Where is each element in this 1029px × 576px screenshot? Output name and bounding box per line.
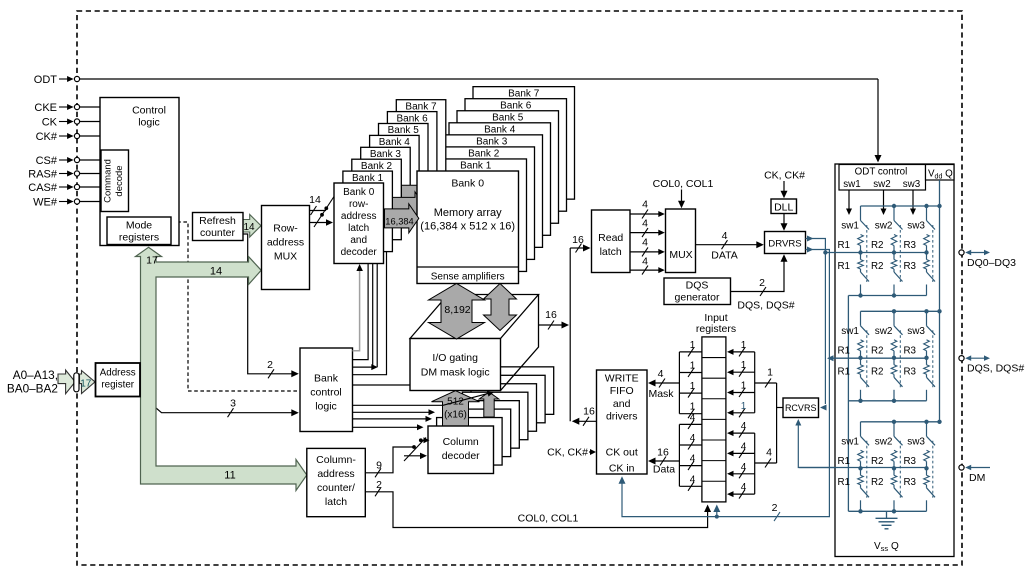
svg-text:counter: counter [200, 227, 236, 239]
svg-text:sw3: sw3 [907, 436, 925, 447]
svg-text:drivers: drivers [606, 411, 638, 423]
svg-text:ODT: ODT [34, 74, 58, 86]
svg-text:R1: R1 [837, 366, 850, 377]
svg-text:ODT control: ODT control [855, 167, 908, 178]
svg-text:R2: R2 [871, 477, 884, 488]
svg-text:4: 4 [741, 462, 747, 473]
svg-text:4: 4 [741, 482, 747, 493]
svg-text:Bank 6: Bank 6 [397, 113, 429, 124]
svg-text:sw1: sw1 [841, 436, 859, 447]
svg-text:CK, CK#: CK, CK# [547, 447, 588, 459]
svg-text:MUX: MUX [274, 251, 297, 263]
svg-text:DM mask logic: DM mask logic [421, 367, 490, 379]
svg-text:and: and [613, 398, 631, 410]
svg-text:R3: R3 [903, 366, 916, 377]
svg-text:address: address [317, 468, 354, 480]
svg-text:3: 3 [230, 398, 236, 410]
svg-text:registers: registers [696, 323, 736, 335]
svg-text:latch: latch [600, 246, 622, 258]
svg-text:DQS: DQS [686, 280, 709, 292]
svg-text:decoder: decoder [341, 247, 378, 258]
svg-text:2: 2 [759, 277, 765, 289]
svg-text:and: and [350, 235, 367, 246]
svg-text:COL0, COL1: COL0, COL1 [518, 513, 579, 525]
svg-text:Column: Column [443, 436, 479, 448]
svg-text:R3: R3 [903, 477, 916, 488]
svg-text:DRVRS: DRVRS [768, 239, 801, 250]
svg-text:sw1: sw1 [843, 179, 860, 190]
svg-text:16,384: 16,384 [385, 217, 413, 227]
svg-text:1: 1 [741, 340, 747, 351]
svg-text:16: 16 [572, 234, 584, 246]
svg-text:16: 16 [583, 406, 595, 418]
svg-text:4: 4 [722, 230, 728, 242]
svg-text:16: 16 [545, 309, 557, 321]
svg-text:R2: R2 [871, 456, 884, 467]
svg-text:DQS, DQS#: DQS, DQS# [737, 300, 794, 312]
svg-text:Bank: Bank [314, 373, 339, 385]
svg-text:latch: latch [348, 223, 369, 234]
svg-text:4: 4 [642, 255, 648, 267]
svg-text:address: address [267, 237, 304, 249]
svg-text:Read: Read [598, 232, 623, 244]
svg-text:Bank 0: Bank 0 [451, 178, 484, 190]
svg-text:17: 17 [146, 255, 158, 267]
svg-text:sw2: sw2 [875, 221, 893, 232]
svg-text:1: 1 [690, 361, 696, 372]
svg-text:1: 1 [690, 340, 696, 351]
svg-text:sw1: sw1 [841, 326, 859, 337]
svg-text:Bank 2: Bank 2 [361, 161, 393, 172]
svg-text:Mask: Mask [648, 388, 674, 400]
svg-text:logic: logic [315, 401, 337, 413]
svg-text:row-: row- [349, 199, 368, 210]
svg-text:Bank 1: Bank 1 [460, 161, 492, 172]
svg-text:DLL: DLL [774, 201, 793, 213]
svg-text:14: 14 [210, 266, 222, 278]
svg-text:1: 1 [741, 360, 747, 371]
svg-text:Bank 6: Bank 6 [500, 100, 532, 111]
svg-text:register: register [101, 380, 134, 391]
svg-text:4: 4 [766, 447, 772, 459]
svg-text:4: 4 [741, 421, 747, 432]
svg-text:Row-: Row- [273, 223, 298, 235]
svg-text:R1: R1 [837, 240, 850, 251]
svg-text:latch: latch [325, 496, 347, 508]
svg-text:RAS#: RAS# [28, 169, 58, 181]
svg-text:Bank 2: Bank 2 [468, 149, 500, 160]
svg-text:Bank 5: Bank 5 [492, 112, 524, 123]
svg-text:2: 2 [267, 359, 273, 371]
svg-text:CK: CK [42, 117, 58, 129]
svg-text:14: 14 [243, 222, 255, 233]
svg-text:sw2: sw2 [873, 179, 890, 190]
svg-text:MUX: MUX [669, 249, 692, 261]
svg-text:Bank 4: Bank 4 [484, 125, 516, 136]
svg-text:R2: R2 [871, 240, 884, 251]
svg-text:4: 4 [642, 217, 648, 229]
svg-text:11: 11 [224, 470, 235, 482]
svg-text:4: 4 [642, 236, 648, 248]
svg-text:Command: Command [103, 159, 114, 203]
svg-text:CK, CK#: CK, CK# [764, 170, 805, 182]
svg-text:Address: Address [100, 368, 136, 379]
svg-text:R2: R2 [871, 366, 884, 377]
svg-text:R1: R1 [837, 345, 850, 356]
svg-text:R2: R2 [871, 345, 884, 356]
svg-text:decoder: decoder [442, 450, 480, 462]
svg-text:4: 4 [690, 433, 696, 444]
svg-text:1: 1 [741, 381, 747, 392]
svg-text:registers: registers [119, 232, 159, 244]
svg-text:FIFO: FIFO [610, 385, 634, 397]
svg-text:Mode: Mode [126, 220, 152, 232]
svg-text:BA0–BA2: BA0–BA2 [7, 382, 58, 396]
svg-text:4: 4 [690, 454, 696, 465]
svg-text:sw3: sw3 [903, 179, 921, 190]
svg-text:Bank 7: Bank 7 [508, 88, 540, 99]
svg-text:16: 16 [657, 447, 669, 459]
svg-text:2: 2 [376, 479, 382, 491]
svg-text:CK in: CK in [609, 463, 635, 475]
svg-text:sw2: sw2 [875, 436, 893, 447]
svg-text:sw3: sw3 [907, 326, 925, 337]
svg-text:Bank 0: Bank 0 [343, 187, 375, 198]
svg-text:DQ0–DQ3: DQ0–DQ3 [967, 257, 1016, 269]
svg-text:4: 4 [658, 368, 664, 380]
svg-text:R1: R1 [837, 261, 850, 272]
svg-text:1: 1 [741, 401, 747, 412]
svg-text:sw2: sw2 [875, 326, 893, 337]
svg-text:logic: logic [138, 117, 160, 129]
svg-text:Bank 4: Bank 4 [379, 137, 411, 148]
svg-text:A0–A13,: A0–A13, [13, 368, 58, 382]
svg-text:DATA: DATA [711, 250, 737, 262]
svg-text:9: 9 [376, 460, 382, 472]
svg-text:generator: generator [675, 292, 720, 304]
svg-text:Memory array: Memory array [434, 207, 502, 219]
svg-text:4: 4 [741, 441, 747, 452]
svg-text:decode: decode [114, 165, 125, 196]
svg-text:Control: Control [132, 105, 166, 117]
svg-text:DQS, DQS#: DQS, DQS# [967, 363, 1024, 375]
svg-text:R1: R1 [837, 456, 850, 467]
svg-text:I/O gating: I/O gating [432, 352, 478, 364]
svg-text:14: 14 [309, 194, 321, 206]
svg-text:CKE: CKE [34, 102, 57, 114]
svg-text:8,192: 8,192 [444, 304, 470, 316]
svg-text:CS#: CS# [36, 155, 58, 167]
svg-text:R3: R3 [903, 345, 916, 356]
svg-text:CAS#: CAS# [28, 182, 58, 194]
svg-text:R3: R3 [903, 240, 916, 251]
svg-text:4: 4 [690, 474, 696, 485]
svg-text:sw1: sw1 [841, 221, 859, 232]
svg-text:WE#: WE# [33, 197, 58, 209]
svg-text:R1: R1 [837, 477, 850, 488]
svg-text:CK out: CK out [606, 447, 638, 459]
svg-text:4: 4 [642, 199, 648, 211]
svg-text:1: 1 [690, 402, 696, 413]
svg-text:control: control [310, 387, 342, 399]
svg-text:(16,384 x 512 x 16): (16,384 x 512 x 16) [420, 221, 515, 233]
svg-text:R3: R3 [903, 456, 916, 467]
svg-text:Bank 3: Bank 3 [476, 137, 508, 148]
svg-text:Sense amplifiers: Sense amplifiers [431, 272, 505, 283]
svg-text:Bank 1: Bank 1 [352, 173, 384, 184]
svg-text:17: 17 [80, 379, 92, 390]
svg-text:R3: R3 [903, 261, 916, 272]
svg-text:CK#: CK# [36, 131, 58, 143]
svg-text:address: address [341, 211, 377, 222]
svg-text:Column-: Column- [316, 454, 356, 466]
svg-text:WRITE: WRITE [605, 373, 639, 385]
svg-text:1: 1 [767, 367, 773, 379]
svg-text:Bank 7: Bank 7 [405, 101, 437, 112]
svg-text:RCVRS: RCVRS [785, 403, 817, 413]
svg-text:counter/: counter/ [317, 482, 355, 494]
svg-text:2: 2 [772, 502, 778, 514]
svg-text:Data: Data [653, 464, 675, 476]
svg-text:Bank 3: Bank 3 [370, 149, 402, 160]
svg-text:1: 1 [690, 381, 696, 392]
svg-text:R2: R2 [871, 261, 884, 272]
svg-text:COL0, COL1: COL0, COL1 [653, 178, 714, 190]
svg-text:Bank 5: Bank 5 [388, 125, 420, 136]
svg-text:sw3: sw3 [907, 221, 925, 232]
svg-text:DM: DM [969, 472, 985, 484]
svg-text:(x16): (x16) [444, 410, 467, 421]
svg-text:Refresh: Refresh [199, 215, 236, 227]
svg-text:4: 4 [690, 412, 696, 423]
